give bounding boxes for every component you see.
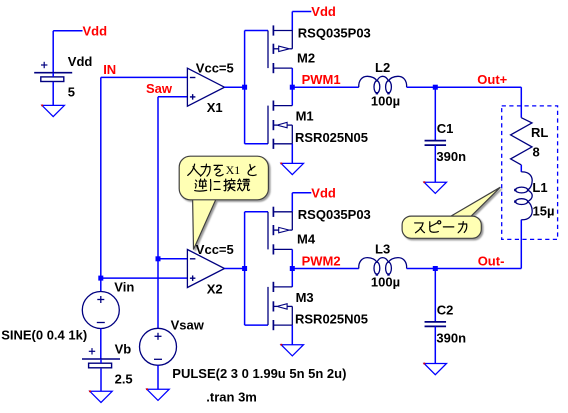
svg-text:Vin: Vin — [114, 280, 134, 295]
svg-text:15µ: 15µ — [533, 204, 555, 219]
svg-text:Vb: Vb — [115, 341, 132, 356]
svg-text:Saw: Saw — [146, 81, 173, 96]
svg-text:Vcc=5: Vcc=5 — [196, 61, 234, 76]
svg-text:X1: X1 — [207, 100, 223, 115]
svg-text:Out-: Out- — [478, 253, 505, 268]
svg-text:L2: L2 — [375, 60, 390, 75]
svg-text:100µ: 100µ — [371, 93, 400, 108]
svg-text:100µ: 100µ — [371, 275, 400, 290]
svg-text:Vdd: Vdd — [311, 4, 336, 19]
svg-text:Vdd: Vdd — [68, 54, 93, 69]
svg-text:C2: C2 — [437, 302, 454, 317]
svg-text:Out+: Out+ — [477, 72, 507, 87]
svg-text:X1: X1 — [226, 163, 241, 177]
svg-text:PWM2: PWM2 — [302, 253, 341, 268]
svg-text:5: 5 — [68, 85, 75, 100]
svg-text:2.5: 2.5 — [115, 371, 133, 386]
svg-text:M4: M4 — [297, 232, 316, 247]
svg-text:Vcc=5: Vcc=5 — [196, 242, 234, 257]
svg-text:IN: IN — [103, 62, 116, 77]
svg-text:RL: RL — [531, 125, 548, 140]
svg-text:RSQ035P03: RSQ035P03 — [298, 26, 371, 41]
svg-text:RSR025N05: RSR025N05 — [295, 311, 368, 326]
svg-text:.tran 3m: .tran 3m — [206, 390, 257, 405]
svg-text:390n: 390n — [436, 330, 466, 345]
svg-text:8: 8 — [533, 144, 540, 159]
svg-text:Vsaw: Vsaw — [171, 317, 205, 332]
svg-text:RSR025N05: RSR025N05 — [295, 130, 368, 145]
svg-text:L3: L3 — [375, 242, 390, 257]
svg-text:X2: X2 — [207, 281, 223, 296]
svg-text:390n: 390n — [436, 149, 466, 164]
svg-text:M1: M1 — [296, 109, 314, 124]
svg-text:C1: C1 — [437, 121, 454, 136]
svg-text:PULSE(2 3 0 1.99u 5n 5n 2u): PULSE(2 3 0 1.99u 5n 5n 2u) — [172, 366, 346, 381]
svg-text:SINE(0 0.4 1k): SINE(0 0.4 1k) — [1, 328, 87, 343]
svg-text:RSQ035P03: RSQ035P03 — [298, 207, 371, 222]
svg-text:M3: M3 — [296, 290, 314, 305]
svg-text:M2: M2 — [297, 50, 315, 65]
svg-text:Vdd: Vdd — [83, 23, 108, 38]
svg-text:PWM1: PWM1 — [302, 72, 341, 87]
svg-text:L1: L1 — [532, 180, 547, 195]
svg-text:Vdd: Vdd — [311, 185, 336, 200]
